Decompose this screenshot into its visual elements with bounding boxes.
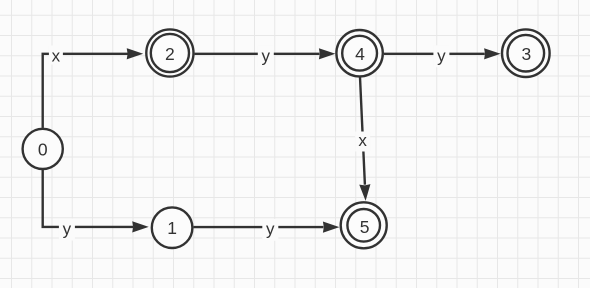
svg-text:y: y	[262, 46, 271, 65]
state 0 (start)	[23, 129, 63, 169]
label y on edge 1-5	[262, 219, 278, 241]
svg-text:y: y	[437, 46, 446, 65]
arrowhead into state 5	[323, 222, 340, 233]
wire: edge 4 to 5	[360, 77, 365, 185]
wire: edge 0 to 2	[43, 54, 129, 128]
svg-text:y: y	[63, 220, 72, 239]
arrowhead into state 2	[127, 48, 144, 59]
state 1	[152, 207, 193, 248]
label x on edge 4-5	[355, 131, 370, 152]
svg-text:5: 5	[360, 217, 370, 237]
arrowhead into state 1	[132, 221, 149, 232]
label y on edge 0-1	[59, 219, 75, 241]
svg-text:0: 0	[38, 140, 48, 160]
svg-text:x: x	[52, 46, 61, 65]
svg-text:4: 4	[355, 44, 365, 64]
svg-text:y: y	[266, 220, 275, 239]
wire: edge 1 to 5	[194, 226, 324, 228]
wire: edge 0 to 1	[43, 170, 133, 227]
arrowhead into state 3	[484, 48, 501, 59]
wire: edge 4 to 3	[384, 53, 485, 55]
svg-text:1: 1	[167, 218, 177, 238]
svg-text:3: 3	[522, 44, 532, 64]
state 4 (accepting, double circle)	[336, 30, 382, 76]
state 5 (accepting, double circle)	[341, 202, 387, 248]
svg-text:x: x	[358, 131, 367, 150]
arrowhead into state 5	[359, 184, 370, 201]
svg-text:2: 2	[165, 44, 175, 64]
state 2 (accepting, double circle)	[146, 29, 193, 76]
label y on edge 4-3	[433, 45, 449, 67]
label y on edge 2-4	[258, 45, 274, 67]
label x on edge 0-2	[49, 46, 63, 66]
wire: edge 2 to 4	[195, 53, 320, 55]
arrowhead into state 4	[319, 48, 336, 59]
state 3 (accepting, double circle)	[502, 29, 550, 77]
